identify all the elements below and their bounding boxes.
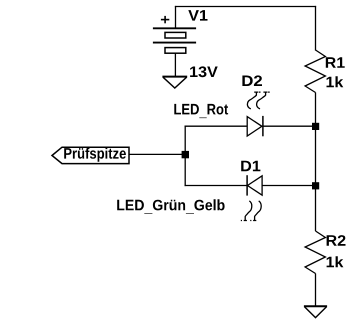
wire top rail horizontal xyxy=(175,6,316,8)
LED D1 light arrow 1 (pointing down-left) xyxy=(241,201,252,221)
wire node A to node C xyxy=(315,126,317,185)
wire battery negative to ground xyxy=(174,53,176,76)
resistor R2 xyxy=(305,231,325,274)
ground (battery) xyxy=(162,77,187,88)
label R1 xyxy=(326,57,345,68)
ground (bottom) xyxy=(304,306,327,317)
wire battery positive to top rail xyxy=(175,6,177,28)
label R2 xyxy=(327,235,346,246)
net label Pruefspitze flag xyxy=(52,147,129,163)
wire node B to LED D1 cathode xyxy=(185,185,248,187)
wire top rail down to R1 xyxy=(315,6,317,51)
junction node B xyxy=(182,151,189,158)
junction node A xyxy=(312,123,319,130)
label LED_Gruen_Gelb xyxy=(117,199,224,214)
wire left branch vertical xyxy=(184,126,186,187)
label 1k (R2) xyxy=(327,256,344,267)
resistor R1 xyxy=(305,50,325,93)
plate line 2 xyxy=(153,42,196,44)
label 1k (R1) xyxy=(327,76,344,87)
label Pruefspitze xyxy=(64,148,126,162)
wire LED D2 cathode to node A xyxy=(263,125,316,127)
LED D2 light arrow 2 xyxy=(257,92,270,109)
plus sign xyxy=(161,19,169,21)
wire R2 to ground xyxy=(315,274,317,307)
cell box 2 xyxy=(165,48,186,54)
label D1 xyxy=(241,161,260,172)
label LED_Rot xyxy=(174,104,228,118)
plate line 1 xyxy=(153,27,196,29)
battery V1 xyxy=(153,16,196,53)
cell box 1 xyxy=(165,32,186,38)
wire node B to LED D2 anode xyxy=(185,125,248,127)
wire node C to R2 xyxy=(315,186,317,232)
label V1 xyxy=(188,10,207,21)
LED D2 light arrow 1 xyxy=(247,92,260,109)
label 13V xyxy=(190,66,218,77)
LED D1 light arrow 2 (pointing down-left) xyxy=(250,201,261,221)
LED D2 (anode left, cathode right) xyxy=(247,116,263,136)
wire Pruefspitze to node B xyxy=(129,153,185,155)
LED D1 (cathode left, anode right) xyxy=(247,175,262,195)
label D2 xyxy=(242,75,262,86)
junction node C xyxy=(312,182,319,189)
wire LED D1 anode to node C xyxy=(262,185,315,187)
wire R1 bottom to node A xyxy=(315,93,317,127)
